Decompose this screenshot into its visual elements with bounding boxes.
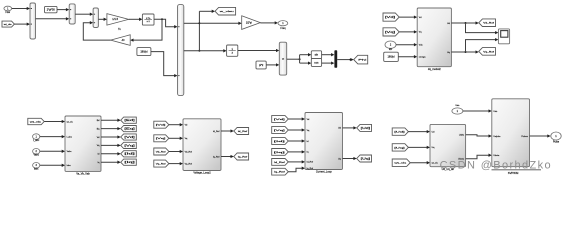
svg-text:Id_Ref: Id_Ref — [307, 162, 314, 164]
svg-text:Ubeta: Ubeta — [493, 154, 500, 157]
svg-text:[Ed]: [Ed] — [124, 120, 135, 122]
svg-text:Ualfa: Ualfa — [459, 135, 465, 137]
svg-text:180/pi: 180/pi — [387, 55, 394, 59]
svg-text:[Ud]: [Ud] — [394, 131, 405, 133]
svg-text:[Vd]: [Vd] — [156, 125, 167, 127]
svg-text:wt_vis: wt_vis — [4, 23, 12, 26]
svg-text:1/2*pi: 1/2*pi — [246, 22, 252, 24]
svg-text:[Vq]: [Vq] — [274, 130, 286, 132]
svg-text:Vd_Ref: Vd_Ref — [483, 23, 494, 25]
svg-text:Phi: Phi — [358, 59, 367, 61]
svg-text:180/pi: 180/pi — [140, 50, 147, 54]
svg-text:2*pi*50: 2*pi*50 — [47, 9, 56, 12]
svg-text:[Eq]: [Eq] — [124, 128, 135, 130]
svg-text:Vd_Ref: Vd_Ref — [156, 151, 166, 153]
svg-text:Voltage_Loop2: Voltage_Loop2 — [193, 171, 211, 175]
svg-text:[Iq]: [Iq] — [124, 162, 135, 164]
svg-text:Iq_Ref: Iq_Ref — [213, 156, 220, 158]
svg-text:Iabc: Iabc — [34, 168, 39, 171]
svg-text:Vabc: Vabc — [33, 154, 39, 157]
svg-text:Ualpha: Ualpha — [493, 136, 501, 138]
svg-text:I_abc: I_abc — [66, 136, 73, 138]
svg-text:SVPWM: SVPWM — [508, 171, 519, 175]
svg-text:Iq_Ref: Iq_Ref — [307, 168, 314, 170]
svg-text:I_abc: I_abc — [33, 139, 40, 142]
svg-text:pi*2: pi*2 — [259, 64, 264, 67]
svg-text:Pulses: Pulses — [521, 136, 528, 138]
svg-text:Iq_Ref: Iq_Ref — [274, 172, 286, 174]
svg-text:omega: omega — [419, 57, 426, 59]
svg-text:Id_Ref: Id_Ref — [274, 162, 286, 164]
svg-text:wt_vis: wt_vis — [30, 120, 41, 123]
svg-text:[Vq]: [Vq] — [156, 138, 167, 140]
svg-text:Current_Loop: Current_Loop — [316, 170, 332, 174]
svg-text:Iq_Ref: Iq_Ref — [238, 156, 248, 158]
svg-text:[Uq]: [Uq] — [361, 158, 371, 160]
svg-text:Vq_Ref: Vq_Ref — [185, 163, 193, 165]
svg-text:Va_Vb_Vab: Va_Vb_Vab — [76, 172, 90, 176]
svg-text:wt_vis: wt_vis — [394, 162, 408, 165]
svg-text:[Vq]: [Vq] — [385, 32, 396, 34]
svg-text:1/1.5: 1/1.5 — [112, 17, 118, 21]
svg-text:[Vd]: [Vd] — [124, 137, 135, 139]
svg-text:[Ud]: [Ud] — [361, 128, 371, 130]
svg-text:[Vd]: [Vd] — [274, 119, 286, 121]
svg-text:[Vq]: [Vq] — [124, 145, 135, 147]
svg-text:[Iq]: [Iq] — [274, 152, 286, 154]
svg-text:[Vd]: [Vd] — [385, 17, 396, 19]
svg-text:dq_model2: dq_model2 — [428, 67, 441, 71]
svg-text:Freq: Freq — [280, 27, 286, 30]
svg-text:[Id]: [Id] — [124, 154, 135, 156]
svg-text:w_visu: w_visu — [220, 11, 236, 13]
svg-text:Id_Ref: Id_Ref — [213, 131, 220, 133]
svg-text:Pulse: Pulse — [553, 140, 560, 143]
svg-text:Fsw: Fsw — [6, 11, 11, 14]
svg-text:Vq_Ref: Vq_Ref — [156, 163, 166, 165]
svg-text:cos: cos — [314, 62, 319, 65]
svg-text:Id_Ref: Id_Ref — [238, 131, 248, 133]
svg-text:Vd_Ref: Vd_Ref — [185, 151, 193, 153]
svg-text:Vq_Ref: Vq_Ref — [483, 51, 494, 53]
svg-text:wt_vis: wt_vis — [67, 120, 74, 123]
svg-text:sin: sin — [315, 53, 319, 57]
svg-text:[Id]: [Id] — [274, 141, 286, 143]
svg-text:[Uq]: [Uq] — [394, 147, 405, 149]
svg-text:wt_vis: wt_vis — [432, 162, 439, 165]
